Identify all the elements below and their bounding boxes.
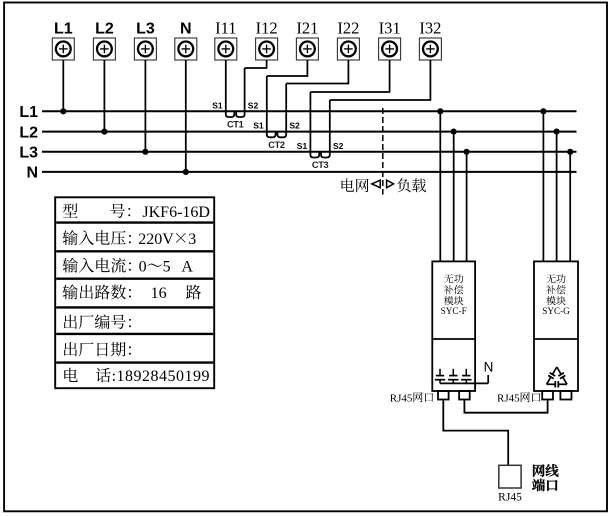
svg-text:RJ45: RJ45: [498, 492, 522, 504]
svg-text:SYC-F: SYC-F: [441, 306, 467, 316]
svg-text:A: A: [181, 258, 193, 275]
svg-text:S1: S1: [212, 100, 223, 110]
svg-text:I22: I22: [337, 19, 359, 38]
svg-text:I31: I31: [379, 19, 401, 38]
svg-text:220V: 220V: [138, 231, 174, 248]
svg-text:I32: I32: [419, 19, 441, 38]
svg-text:L3: L3: [136, 21, 155, 38]
svg-text:I11: I11: [215, 19, 236, 38]
svg-text:RJ45: RJ45: [390, 392, 413, 404]
svg-text:N: N: [180, 21, 192, 38]
svg-text:S1: S1: [253, 121, 264, 131]
svg-text:L3: L3: [19, 145, 38, 162]
svg-text::18928450199: :18928450199: [112, 368, 210, 385]
svg-text:L2: L2: [19, 124, 38, 141]
svg-text:RJ45: RJ45: [497, 392, 520, 404]
svg-text:CT1: CT1: [227, 120, 244, 130]
svg-text:S2: S2: [289, 121, 300, 131]
svg-text:L1: L1: [19, 104, 38, 121]
svg-text:N: N: [26, 165, 38, 182]
svg-text:S1: S1: [297, 141, 308, 151]
svg-text:CT2: CT2: [268, 140, 285, 150]
svg-text:3: 3: [188, 231, 196, 248]
svg-text:I21: I21: [296, 19, 318, 38]
svg-text:SYC-G: SYC-G: [542, 306, 570, 316]
svg-text:0: 0: [139, 258, 147, 275]
svg-text:16: 16: [151, 285, 167, 302]
svg-text:L1: L1: [54, 21, 73, 38]
svg-text:5: 5: [163, 258, 171, 275]
svg-text:N: N: [484, 360, 494, 375]
svg-text:S2: S2: [248, 100, 259, 110]
svg-text:CT3: CT3: [312, 160, 329, 170]
svg-text:JKF6-16D: JKF6-16D: [142, 204, 210, 221]
svg-text:I12: I12: [256, 19, 278, 38]
svg-text:S2: S2: [333, 141, 344, 151]
svg-text:L2: L2: [95, 21, 114, 38]
